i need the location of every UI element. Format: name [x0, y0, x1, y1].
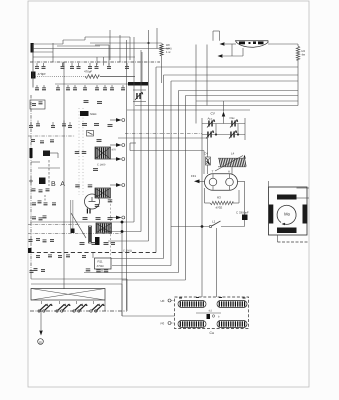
capacitor row2-6 — [96, 85, 98, 88]
capacitor — [95, 203, 100, 206]
wire — [297, 197, 310, 199]
wire — [207, 165, 209, 174]
arrow connector if-2 — [110, 158, 116, 160]
capacitor lc4-1 — [38, 200, 42, 203]
capacitor — [82, 150, 87, 153]
bus wire — [155, 67, 157, 253]
svg-text:C4: C4 — [204, 152, 208, 156]
wire — [30, 221, 134, 223]
capacitor row2-3 — [67, 85, 69, 88]
bus wire — [28, 233, 122, 235]
wire — [62, 62, 64, 66]
capacitor — [108, 199, 113, 202]
capacitor row2-2 — [57, 85, 59, 88]
wire — [238, 190, 240, 203]
bus wire — [121, 223, 123, 316]
wire — [122, 279, 186, 281]
capacitor lc6-0 — [29, 238, 33, 241]
capacitor lc-4 — [69, 122, 71, 125]
wire — [84, 37, 86, 40]
wire — [231, 44, 233, 56]
terminal blob — [28, 248, 32, 253]
bus wire — [171, 80, 298, 82]
svg-text:R3: R3 — [217, 196, 221, 200]
capacitor lc-1 — [37, 121, 39, 124]
wire — [171, 226, 209, 228]
wire — [84, 272, 179, 274]
battery cells 4 — [217, 321, 247, 328]
capacitor row2-8 — [111, 85, 113, 88]
capacitor lc4-2 — [44, 202, 48, 205]
bus wire — [164, 74, 299, 76]
arrow connector if-1 — [110, 144, 116, 146]
battery cells 3 — [178, 321, 206, 328]
capacitor row1-1 — [43, 63, 45, 66]
wire — [201, 118, 203, 297]
arrow connector FF1 — [194, 179, 200, 183]
svg-text:A: A — [228, 170, 230, 174]
tube pin — [212, 174, 214, 178]
capacitor row1-7 — [108, 63, 110, 66]
wire — [195, 45, 197, 124]
heater bus wire — [30, 252, 156, 254]
dash rail wire — [48, 160, 50, 186]
wire — [215, 124, 217, 135]
component — [43, 151, 50, 157]
trimmer 2b — [230, 132, 231, 138]
svg-text:T: T — [212, 170, 214, 174]
speaker frame — [269, 187, 308, 235]
wire — [161, 56, 163, 83]
svg-text:56kΩ: 56kΩ — [90, 113, 96, 116]
blob — [71, 229, 75, 234]
resistor R3 — [210, 201, 233, 204]
wire — [101, 269, 103, 273]
tube V2 envelope — [85, 194, 100, 209]
svg-text:470pF: 470pF — [38, 72, 47, 76]
wire — [112, 265, 171, 267]
antenna terminal blob — [31, 43, 34, 53]
wire — [31, 283, 122, 285]
capacitor — [96, 269, 101, 272]
capacitor — [97, 138, 102, 141]
wire — [33, 48, 170, 50]
arrow connector — [218, 54, 223, 58]
capacitor row1-0 — [36, 63, 38, 66]
trimmer Acc — [208, 121, 209, 127]
wire — [109, 30, 111, 60]
capacitor lc5-2 — [43, 215, 47, 218]
svg-text:P0: P0 — [161, 322, 165, 326]
wire — [133, 89, 146, 91]
capacitor — [92, 241, 97, 244]
wire — [204, 188, 206, 203]
wire — [118, 137, 208, 139]
capacitor hb-1 — [36, 254, 40, 257]
bus wire — [135, 105, 298, 107]
svg-text:C 1400: C 1400 — [97, 164, 106, 167]
arrow connector — [220, 42, 225, 46]
capacitor row1-5 — [89, 63, 91, 66]
AVC bus wire — [30, 61, 160, 63]
capacitor lc-0 — [30, 122, 32, 125]
capacitor — [104, 241, 109, 244]
arrow connector if-4 — [110, 217, 116, 219]
ground arrow — [39, 331, 43, 336]
svg-text:470Ω: 470Ω — [97, 264, 105, 268]
capacitor lc7-1 — [34, 267, 38, 270]
capacitor — [84, 99, 89, 102]
battery cells 1 — [178, 301, 206, 308]
svg-text:FF1: FF1 — [191, 174, 197, 178]
capacitor — [88, 184, 93, 187]
wire — [119, 35, 121, 62]
bus wire — [28, 224, 80, 226]
bus wire — [179, 90, 299, 92]
capacitor lc2-0 — [31, 138, 35, 141]
capacitor lc6-1 — [36, 237, 40, 240]
vertical rail — [63, 62, 65, 289]
wire — [231, 167, 233, 174]
node — [201, 225, 203, 227]
electrolytic bar — [89, 226, 92, 243]
capacitor lc-3 — [63, 121, 65, 124]
wire — [212, 31, 214, 41]
capacitor lc2-1 — [40, 140, 44, 143]
wire — [30, 272, 32, 280]
capacitor row1-3 — [71, 63, 73, 66]
wire — [122, 315, 175, 317]
wire — [278, 241, 310, 243]
component box — [30, 100, 45, 109]
capacitor C4 — [206, 157, 211, 165]
svg-text:470Ω: 470Ω — [216, 206, 223, 210]
wire — [32, 44, 34, 62]
wire — [268, 43, 298, 45]
resistor 470k — [85, 75, 99, 79]
wire — [104, 300, 106, 311]
capacitor — [93, 167, 98, 170]
capacitor — [94, 122, 99, 125]
wire — [33, 56, 135, 58]
bus wire — [126, 40, 128, 310]
wire — [62, 40, 64, 44]
diagonal wire — [71, 213, 86, 238]
tube V2 electrodes — [89, 201, 96, 203]
capacitor — [97, 100, 102, 103]
inductor L4 — [219, 159, 221, 167]
svg-text:Osc: Osc — [230, 116, 236, 120]
bus wire — [178, 91, 180, 273]
wire — [90, 42, 162, 44]
capacitor lc4-0 — [32, 202, 36, 205]
wire — [31, 161, 40, 163]
band switch 0 — [38, 310, 40, 312]
capacitor lc3-0 — [32, 188, 36, 191]
capacitor lc5-1 — [39, 217, 43, 220]
speaker magnet right — [303, 205, 308, 224]
capacitor series — [87, 209, 88, 214]
capacitor — [80, 241, 85, 244]
wire — [277, 235, 279, 242]
tube FF1 envelope — [205, 174, 238, 191]
svg-text:470pF: 470pF — [84, 70, 92, 74]
wire — [297, 187, 310, 189]
bus wire — [196, 100, 298, 102]
capacitor lc5-0 — [32, 216, 36, 219]
bus wire — [163, 75, 165, 259]
screen rail — [82, 108, 84, 195]
capacitor row1-4 — [78, 63, 80, 66]
wire — [156, 28, 158, 49]
wire — [238, 180, 245, 182]
bus wire — [133, 37, 135, 222]
capacitor row1-6 — [96, 63, 98, 66]
svg-text:Ca: Ca — [210, 331, 214, 335]
arrow connector if-0 — [110, 119, 116, 121]
wire — [244, 118, 246, 140]
battery box Ca — [175, 297, 249, 329]
wire — [244, 181, 246, 214]
bus wire — [170, 81, 172, 266]
bus wire — [28, 135, 75, 137]
wire — [126, 279, 128, 311]
battery polarity marks — [179, 298, 182, 299]
svg-text:C 3300pF: C 3300pF — [236, 211, 249, 215]
capacitor — [32, 102, 36, 105]
wire — [32, 62, 34, 88]
wire — [221, 226, 245, 228]
wire — [213, 30, 220, 32]
tube U1 envelope — [236, 41, 269, 47]
capacitor — [82, 122, 87, 125]
band switch 2 — [73, 310, 75, 312]
svg-text:L1: L1 — [212, 220, 216, 224]
wire — [33, 43, 63, 45]
capacitor lc3-1 — [39, 189, 43, 192]
capacitor hb-5 — [82, 254, 86, 257]
wire — [40, 311, 42, 330]
hatched choke — [128, 82, 148, 86]
svg-text:470pF: 470pF — [99, 229, 107, 232]
wire — [125, 133, 202, 135]
svg-text:U0: U0 — [161, 299, 165, 303]
capacitor — [104, 269, 109, 272]
wire — [202, 134, 245, 136]
wire — [38, 167, 60, 169]
speaker magnet bottom — [277, 228, 297, 234]
dash rail — [110, 200, 112, 258]
capacitor hb-2 — [48, 254, 52, 257]
wire — [57, 45, 100, 47]
bus wire — [156, 66, 298, 68]
resistor R2 — [296, 46, 299, 60]
component blob — [39, 178, 46, 185]
svg-text:Acc: Acc — [208, 117, 213, 121]
capacitor lc4-3 — [52, 202, 56, 205]
battery cells 2 — [217, 301, 247, 308]
speaker magnet top — [277, 195, 297, 200]
dotted bus wire — [33, 76, 100, 78]
tube pin — [212, 186, 214, 191]
tube FF1 triode A — [226, 178, 234, 186]
capacitor row2-1 — [43, 85, 45, 88]
capacitor — [108, 216, 113, 219]
arrow connector if-3 — [110, 184, 116, 186]
capacitor row1-8 — [126, 63, 128, 66]
bus wire — [148, 30, 150, 241]
capacitor — [75, 184, 80, 187]
wire — [44, 195, 46, 202]
terminal circle B — [38, 339, 44, 345]
capacitor row2-9 — [122, 85, 124, 88]
frame antenna — [31, 289, 105, 301]
AGC arrow — [222, 112, 226, 117]
capacitor lc7-2 — [41, 268, 45, 271]
wire — [105, 231, 141, 233]
wire — [297, 44, 299, 46]
capacitor — [39, 101, 43, 104]
bus wire — [127, 109, 250, 111]
screen rail — [78, 108, 80, 195]
capacitor row2-7 — [104, 85, 106, 88]
IF transformer T3 — [96, 223, 112, 233]
vertical rail — [70, 200, 72, 229]
IF transformer T1 — [95, 147, 111, 159]
capacitor — [96, 216, 101, 219]
bus wire — [186, 95, 299, 97]
electrolytic blob — [30, 148, 33, 158]
capacitor hb-4 — [66, 254, 70, 257]
band switch 3 — [90, 310, 92, 312]
capacitor C blob 470pF — [31, 72, 36, 79]
capacitor lc2-2 — [50, 139, 54, 142]
svg-text:4,5: 4,5 — [209, 310, 213, 313]
capacitor — [111, 241, 115, 244]
wire — [92, 253, 94, 259]
resistor R11 box — [95, 258, 112, 269]
component box — [87, 131, 94, 137]
speaker magnet left — [269, 205, 274, 224]
node — [148, 42, 150, 44]
IF transformer T2 — [95, 188, 111, 198]
capacitor lc7-0 — [30, 269, 34, 272]
capacitor row2-0 — [36, 85, 38, 88]
capacitor row2-5 — [84, 85, 86, 88]
left rail wire — [30, 95, 32, 271]
capacitor — [83, 216, 88, 219]
bus wire — [140, 50, 142, 232]
wire — [202, 123, 245, 125]
wire — [111, 258, 164, 260]
plus mark — [29, 180, 33, 182]
switch bus wire — [30, 310, 127, 312]
tube FF1 triode T — [209, 178, 217, 186]
capacitor lc6-2 — [43, 239, 47, 242]
motor circle — [277, 205, 296, 224]
trimmer 2a — [207, 132, 208, 138]
wire — [33, 51, 53, 53]
tube pin — [229, 174, 231, 178]
capacitor — [108, 123, 113, 126]
bus wire — [185, 96, 187, 281]
capacitor row1-2 — [62, 63, 64, 66]
wire — [55, 83, 130, 85]
capacitor C blob — [242, 215, 248, 221]
trimmer small — [136, 93, 137, 99]
band switch 1 — [56, 310, 58, 312]
capacitor lc3-2 — [46, 188, 50, 191]
tube U1 electrodes — [239, 42, 245, 45]
node — [215, 134, 217, 136]
resistor R0 — [160, 44, 163, 56]
trimmer Osc — [231, 121, 232, 127]
node — [121, 221, 124, 224]
component 56k — [80, 111, 89, 116]
capacitor lc6-3 — [50, 238, 54, 241]
wire — [141, 52, 143, 83]
svg-text:C 250Ω: C 250Ω — [123, 249, 132, 252]
capacitor — [75, 150, 80, 153]
wire — [95, 44, 109, 46]
wire — [50, 152, 58, 154]
wire — [216, 228, 218, 297]
wire — [223, 55, 243, 57]
dark blob — [95, 237, 100, 245]
frame antenna diagonal — [31, 289, 105, 301]
wire — [121, 284, 123, 316]
capacitor row2-4 — [74, 85, 76, 88]
wire — [100, 76, 135, 78]
capacitor lc-2 — [52, 122, 54, 125]
switch L1 — [209, 225, 211, 227]
svg-text:L4: L4 — [231, 152, 235, 156]
capacitor — [86, 268, 91, 271]
wire — [225, 43, 236, 45]
frame antenna diagonal — [31, 289, 105, 301]
wire — [206, 45, 208, 106]
capacitor hb-3 — [58, 254, 62, 257]
svg-text:470: 470 — [112, 149, 117, 152]
page border — [28, 1, 309, 387]
L4 arrow — [215, 156, 243, 172]
wire — [133, 101, 146, 103]
svg-text:Mo: Mo — [284, 212, 290, 217]
wire — [130, 142, 136, 144]
wire — [108, 240, 149, 242]
